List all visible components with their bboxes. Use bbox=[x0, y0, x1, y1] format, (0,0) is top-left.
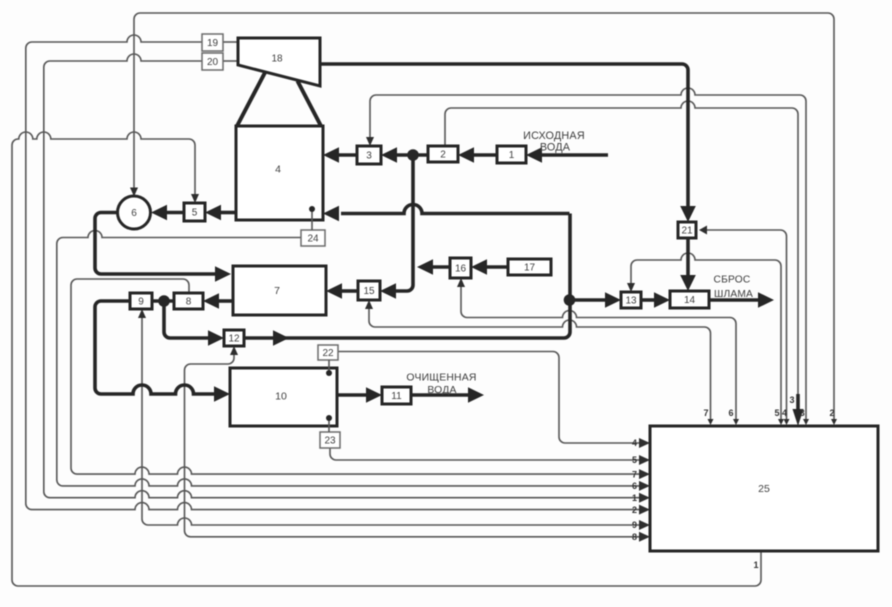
wire sensor 22 probe stub into block 10 bbox=[328, 360, 330, 373]
wire block 16 bottom to controller pin 6 bbox=[461, 283, 736, 422]
block 10 filter bbox=[230, 368, 337, 426]
wire controller left pin 9 to valve 9 bottom bbox=[142, 314, 640, 525]
wire block 3 to block 4 bbox=[339, 153, 357, 157]
arrowhead into block 3 bbox=[381, 147, 397, 163]
block 8 bbox=[174, 293, 203, 309]
wire turbine 18 to block 21 bbox=[320, 64, 688, 213]
arrowhead into block 15 bottom bbox=[365, 300, 373, 309]
block 13 bbox=[621, 292, 641, 308]
wire stub 19 to turbine 18 bbox=[223, 41, 238, 43]
svg-text:ОЧИЩЕННАЯ: ОЧИЩЕННАЯ bbox=[406, 373, 476, 384]
arrowhead into valve 5 right bbox=[205, 205, 221, 221]
wire valve 12 output riser bbox=[244, 214, 570, 339]
arrowhead tick into controller 25 top pin 4 bbox=[784, 419, 790, 425]
thick end segment of pin-3 line bbox=[796, 394, 800, 412]
wire block 7 to block 8 bbox=[217, 299, 233, 303]
arrowhead into block 10 left bbox=[214, 386, 230, 402]
flow arrowhead on line after 12 bbox=[273, 330, 289, 346]
big arrowhead into controller 25 top pin 3 bbox=[793, 409, 804, 426]
junction dot A on feed line bbox=[407, 149, 419, 161]
arrowhead tick into controller 25 top pin 6 bbox=[733, 419, 739, 425]
arrowhead into block 7 right bbox=[326, 283, 342, 299]
arrowhead into block 2 bbox=[458, 147, 474, 163]
arrowhead into block 3 top bbox=[366, 137, 374, 146]
arrowhead into pump 6 right bbox=[151, 205, 167, 221]
svg-text:10: 10 bbox=[275, 390, 287, 402]
wire sludge discharge out of 14 bbox=[709, 298, 760, 302]
sensor dot in block 10 top bbox=[326, 370, 332, 376]
wire block 3 top to controller pin 3 thin bbox=[370, 88, 806, 422]
svg-text:5: 5 bbox=[192, 207, 198, 218]
svg-text:18: 18 bbox=[271, 54, 283, 65]
svg-text:15: 15 bbox=[363, 286, 375, 297]
svg-text:4: 4 bbox=[275, 163, 281, 175]
arrowhead into block 16 right bbox=[471, 259, 487, 275]
block 12 valve bbox=[224, 330, 244, 346]
svg-text:23: 23 bbox=[324, 435, 336, 446]
wire source water inlet bbox=[541, 153, 608, 157]
arrowhead into pump 6 top bbox=[130, 188, 138, 197]
wire stub 20 to turbine 18 bbox=[223, 60, 238, 62]
arrowhead into block 21 top bbox=[680, 206, 696, 222]
svg-text:16: 16 bbox=[455, 263, 467, 274]
block 7 tank bbox=[233, 266, 326, 315]
svg-text:СБРОС: СБРОС bbox=[714, 275, 751, 286]
wire controller pin 4 to block 21 bbox=[703, 230, 787, 422]
funnel between 18 and 4 bbox=[237, 73, 265, 127]
wire block 20 loop to controller left pin 1 bbox=[44, 54, 640, 498]
block 19 sensor bbox=[202, 34, 223, 51]
arrowhead into controller left pin 5 bbox=[639, 455, 650, 465]
arrowhead into controller left pin 7 bbox=[639, 469, 650, 479]
arrowhead into controller left pin 9 bbox=[639, 520, 650, 530]
arrowhead into block 14 top bbox=[680, 275, 696, 291]
junction dot B sludge branch bbox=[564, 294, 576, 306]
wire block 21 to block 14 top bbox=[686, 238, 690, 281]
arrowhead tick into controller 25 top pin 7 bbox=[708, 419, 714, 425]
arrowhead into valve 9 bottom bbox=[138, 309, 146, 318]
svg-text:25: 25 bbox=[758, 483, 770, 495]
arrowhead into valve 12 left bbox=[208, 330, 224, 346]
svg-text:24: 24 bbox=[307, 233, 319, 244]
svg-text:14: 14 bbox=[684, 295, 696, 306]
arrowhead into controller left pin 2 bbox=[639, 505, 650, 515]
svg-text:ИСХОДНАЯ: ИСХОДНАЯ bbox=[523, 130, 585, 142]
wire sensor 24 probe stub into block 4 bbox=[311, 209, 313, 230]
arrowhead into valve 12 bottom bbox=[230, 346, 238, 355]
svg-text:1: 1 bbox=[753, 560, 758, 570]
wire net 2-top of controller to pump 6 top bbox=[134, 13, 834, 422]
svg-text:ВОДА: ВОДА bbox=[427, 385, 456, 396]
wire doser 16 output into feed drop bbox=[431, 265, 450, 269]
wire block 1 to block 2 bbox=[474, 153, 497, 157]
arrowhead into block 15 right bbox=[380, 283, 396, 299]
wire sensor 23 to controller left pin 5 bbox=[330, 448, 640, 460]
svg-text:8: 8 bbox=[632, 532, 637, 542]
arrowhead into valve 5 top bbox=[191, 194, 199, 203]
wire controller left pin 8 to valve 12 bottom bbox=[185, 351, 641, 537]
svg-text:2: 2 bbox=[632, 505, 637, 515]
svg-text:ШЛАМА: ШЛАМА bbox=[714, 289, 753, 300]
wire block 17 to doser 16 bbox=[485, 265, 508, 269]
wire block 13 to block 14 bbox=[641, 298, 656, 302]
svg-text:12: 12 bbox=[228, 333, 240, 344]
svg-text:3: 3 bbox=[800, 408, 805, 418]
turbine 18 bbox=[238, 38, 320, 86]
sensor dot in block 10 bottom bbox=[326, 415, 332, 421]
wire main feed drop to block 15 bbox=[396, 155, 413, 291]
wire block 2 to block 3 via junction bbox=[397, 153, 428, 157]
block 21 bbox=[678, 222, 696, 238]
arrowhead into block 14 bbox=[654, 292, 670, 308]
svg-text:13: 13 bbox=[625, 295, 637, 306]
arrowhead into block 1 bbox=[526, 147, 542, 163]
svg-text:1: 1 bbox=[509, 150, 515, 161]
block 1 strainer bbox=[497, 146, 526, 163]
controller 25 bbox=[650, 426, 878, 551]
block 5 valve bbox=[184, 203, 205, 221]
wire controller bottom pin 1 to valve 5 top bbox=[12, 132, 761, 586]
svg-text:9: 9 bbox=[632, 520, 637, 530]
svg-text:7: 7 bbox=[703, 408, 708, 418]
wire block 8 to block 9 via junction bbox=[152, 299, 174, 303]
block 24 sensor bbox=[301, 230, 325, 246]
svg-text:3: 3 bbox=[366, 150, 372, 161]
wire clean water outlet bbox=[411, 393, 470, 397]
svg-text:7: 7 bbox=[632, 469, 637, 479]
arrowhead into controller left pin 8 bbox=[639, 532, 650, 542]
arrowhead into controller left pin 1 bbox=[639, 493, 650, 503]
wire junction B to block 13 bbox=[570, 298, 608, 302]
wire valve 5 to pump 6 bbox=[165, 211, 184, 215]
arrowhead into block 4 right edge upper bbox=[323, 147, 339, 163]
wire block 2 top to controller thick pin 3 bbox=[445, 101, 798, 396]
arrowhead into block 4 right edge lower bbox=[323, 206, 339, 222]
block 9 bbox=[130, 293, 152, 309]
arrowhead sludge discharge bbox=[758, 292, 774, 308]
arrowhead doser into pipe bbox=[417, 259, 433, 275]
arrowhead into block 21 right bbox=[699, 226, 707, 235]
block 17 reagent tank bbox=[508, 259, 551, 275]
wire block 4 to valve 5 bbox=[220, 211, 236, 215]
svg-text:21: 21 bbox=[681, 225, 693, 236]
block 11 flowmeter bbox=[382, 387, 411, 404]
arrowhead into block 16 bottom bbox=[457, 278, 465, 287]
arrowhead into controller left pin 6 bbox=[639, 481, 650, 491]
svg-text:20: 20 bbox=[207, 57, 219, 68]
svg-text:6: 6 bbox=[131, 208, 137, 219]
arrowhead into block 13 bbox=[605, 292, 621, 308]
svg-text:1: 1 bbox=[632, 493, 637, 503]
junction dot C between 8 and 9 bbox=[158, 295, 170, 307]
wire sensor 23 probe stub into block 10 bbox=[328, 418, 330, 432]
block 3 valve bbox=[357, 146, 381, 164]
svg-text:5: 5 bbox=[632, 455, 637, 465]
svg-text:2: 2 bbox=[829, 408, 834, 418]
wire pump 6 output to block 7 bbox=[95, 213, 217, 275]
wire block 10 to block 11 bbox=[337, 393, 370, 397]
svg-text:22: 22 bbox=[322, 348, 334, 359]
wire recycle into block 4 right edge lower bbox=[341, 205, 570, 214]
svg-text:3: 3 bbox=[789, 395, 794, 405]
svg-text:6: 6 bbox=[728, 408, 733, 418]
svg-text:4: 4 bbox=[782, 408, 787, 418]
svg-text:ВОДА: ВОДА bbox=[540, 142, 571, 154]
svg-text:9: 9 bbox=[138, 296, 144, 307]
arrowhead into block 8 right bbox=[203, 293, 219, 309]
block 4 reactor bbox=[236, 126, 323, 220]
block 15 valve bbox=[358, 281, 380, 300]
svg-text:5: 5 bbox=[774, 408, 779, 418]
svg-text:17: 17 bbox=[524, 262, 536, 273]
svg-text:7: 7 bbox=[274, 285, 280, 297]
svg-text:2: 2 bbox=[440, 149, 446, 160]
block 23 sensor bbox=[320, 432, 340, 448]
wire block 8 top to controller left pin 7 bbox=[71, 279, 640, 474]
block 22 sensor bbox=[318, 345, 338, 360]
wire sensor 24 to controller left pin 6 bbox=[57, 231, 640, 486]
wire block 15 to block 7 bbox=[342, 289, 358, 293]
arrowhead into block 7 left bbox=[215, 266, 231, 282]
arrowhead tick into controller 25 top pin 3 bbox=[803, 419, 809, 425]
pump 6 circle bbox=[118, 196, 151, 229]
svg-text:8: 8 bbox=[186, 296, 192, 307]
svg-text:19: 19 bbox=[207, 38, 219, 49]
block 16 doser bbox=[450, 258, 471, 278]
block 14 bbox=[670, 291, 709, 308]
arrowhead tick into controller 25 top pin 2 bbox=[831, 419, 837, 425]
arrowhead into block 11 left bbox=[366, 387, 382, 403]
wire junction C down to valve 12 bbox=[164, 301, 210, 338]
wire block 15 bottom to controller pin 7 bbox=[369, 305, 711, 422]
wire controller pin 5 to block 13 top bbox=[631, 253, 781, 422]
svg-text:6: 6 bbox=[632, 481, 637, 491]
wire block 19 loop to controller left pin 2 bbox=[26, 35, 640, 510]
wire block 9 out to block 10 bbox=[95, 301, 216, 394]
block 2 flowmeter bbox=[428, 146, 458, 162]
sensor dot in block 4 bbox=[309, 206, 315, 212]
arrowhead into controller left pin 4 bbox=[639, 438, 650, 448]
arrowhead clean water out bbox=[468, 387, 484, 403]
wire sensor 22 to controller left pin 4 bbox=[338, 352, 640, 444]
arrowhead tick into controller 25 top pin 5 bbox=[778, 419, 784, 425]
svg-text:4: 4 bbox=[632, 438, 637, 448]
svg-text:11: 11 bbox=[391, 391, 402, 402]
arrowhead into block 13 top bbox=[627, 283, 635, 292]
block 20 sensor bbox=[202, 53, 223, 70]
